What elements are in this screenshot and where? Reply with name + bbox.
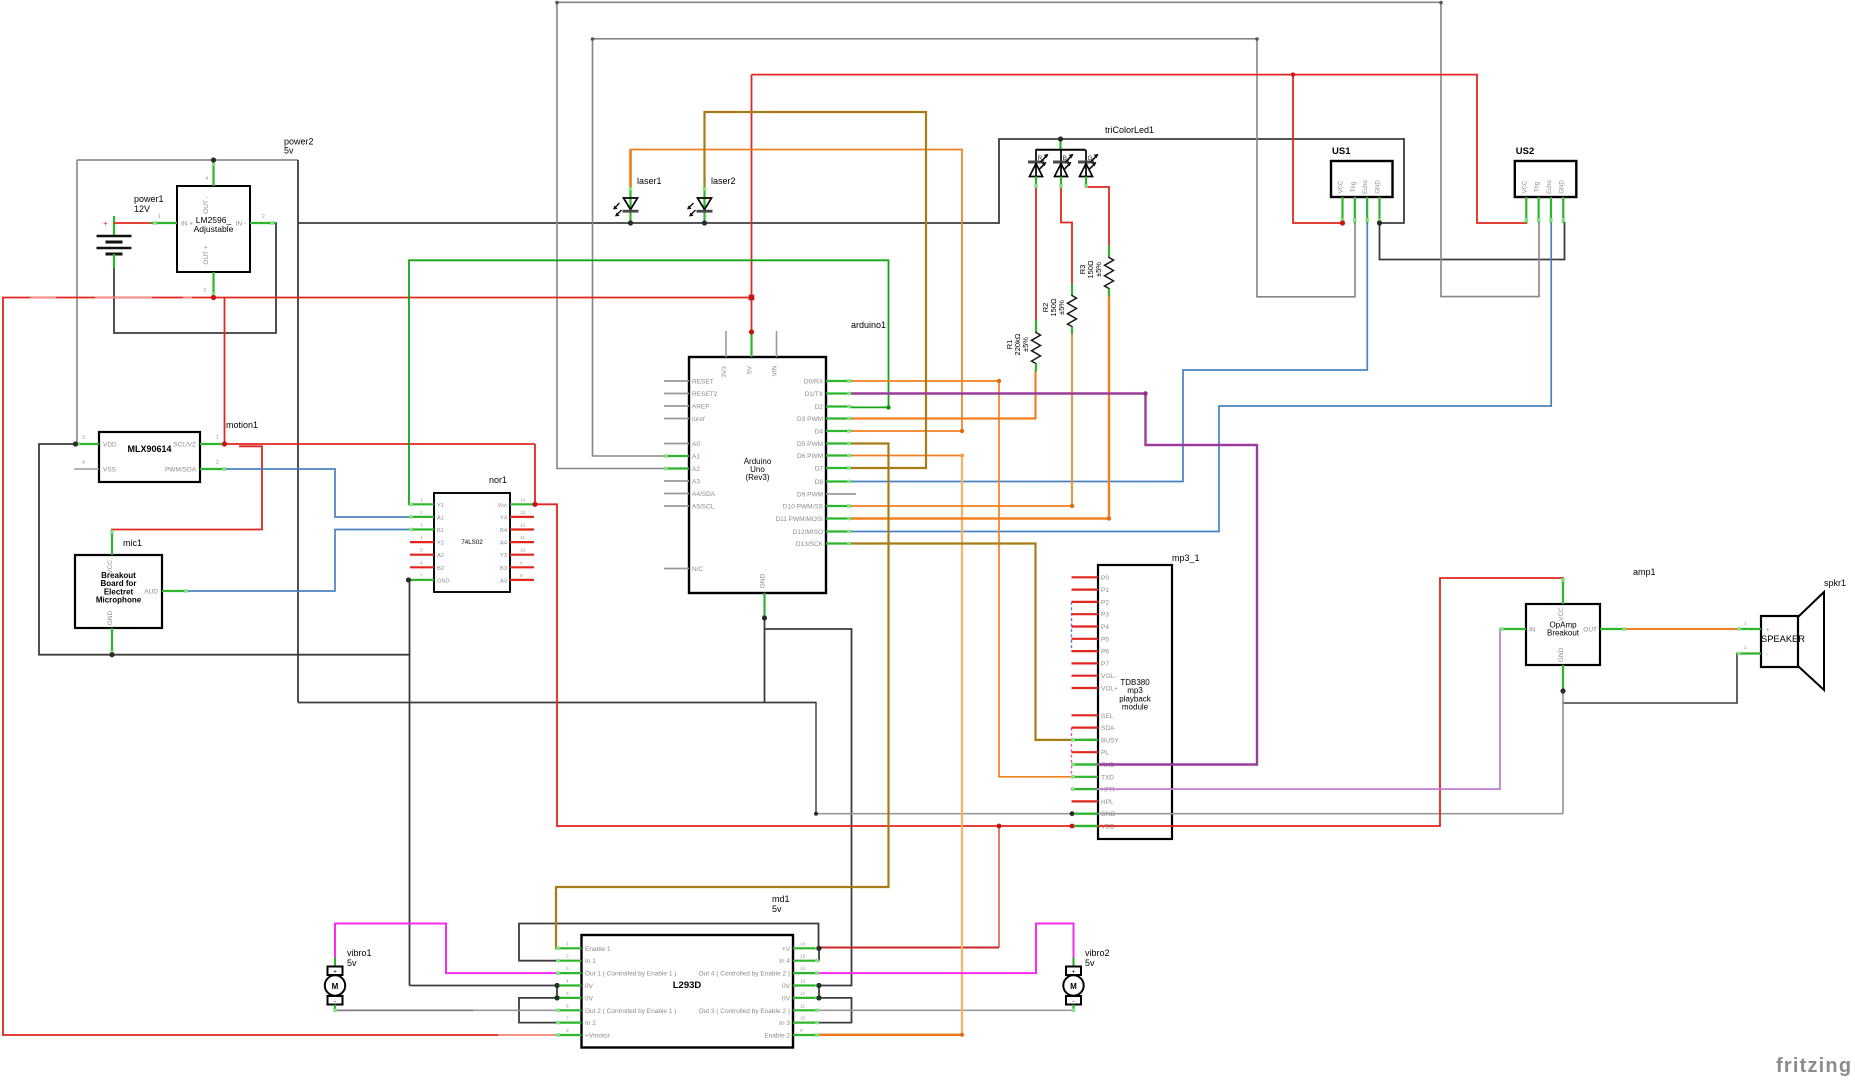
svg-text:GND: GND xyxy=(760,573,767,588)
junction A2 corner xyxy=(555,1,559,5)
svg-text:HPL: HPL xyxy=(1101,799,1114,806)
wire 12V rail overlay xyxy=(95,297,152,299)
svg-text:3: 3 xyxy=(420,523,423,529)
svg-text:1: 1 xyxy=(420,497,423,503)
svg-text:4: 4 xyxy=(420,535,423,541)
ratsnest mp3 SDA-TXD xyxy=(1071,728,1073,777)
svg-text:3: 3 xyxy=(566,966,569,972)
svg-text:OUT -: OUT - xyxy=(203,196,210,214)
wire arduino GND branch xyxy=(765,629,852,986)
junction laser2 cathode xyxy=(702,220,707,225)
svg-text:8: 8 xyxy=(566,1028,569,1034)
wire amp GND to speaker minus xyxy=(1563,654,1737,704)
svg-text:B3: B3 xyxy=(500,566,507,572)
svg-text:arduino1: arduino1 xyxy=(851,320,886,330)
wire D0 to mp3 TXD xyxy=(852,381,1099,777)
svg-text:HPR: HPR xyxy=(1101,787,1115,794)
nor1 left pins xyxy=(409,503,434,505)
wire D6 horizontal xyxy=(852,455,963,457)
svg-text:VSS: VSS xyxy=(103,467,117,474)
svg-text:7: 7 xyxy=(566,1016,569,1022)
svg-text:74LS02: 74LS02 xyxy=(461,539,483,546)
svg-text:9: 9 xyxy=(520,560,523,566)
svg-text:B2: B2 xyxy=(437,566,444,572)
wire laser1 anode overlay xyxy=(629,150,632,187)
svg-text:fritzing: fritzing xyxy=(1776,1055,1852,1077)
wire nor GND to L293D 0V4 xyxy=(410,985,558,987)
svg-text:1: 1 xyxy=(216,435,219,441)
battery power1 plus stub xyxy=(113,216,115,236)
svg-text:2: 2 xyxy=(216,460,219,466)
regulator U-power2 box xyxy=(177,186,250,272)
svg-text:5v: 5v xyxy=(284,146,294,156)
svg-text:GND: GND xyxy=(1101,811,1116,818)
svg-text:BUSY: BUSY xyxy=(1101,737,1119,744)
svg-text:0V: 0V xyxy=(782,983,791,990)
svg-text:10: 10 xyxy=(520,548,526,554)
svg-text:D12/MISO: D12/MISO xyxy=(793,529,823,536)
junction D1 purple xyxy=(1143,391,1147,395)
svg-text:A2: A2 xyxy=(437,553,444,559)
junction L293D 0V13 xyxy=(816,983,821,988)
svg-text:power1: power1 xyxy=(134,194,164,204)
svg-text:Trig: Trig xyxy=(1535,182,1541,192)
wire Out3 to vibro2 minus xyxy=(819,1009,1074,1011)
svg-text:1: 1 xyxy=(1744,621,1747,627)
svg-text:VIN: VIN xyxy=(772,365,779,376)
wire D6 to Enable2 drop xyxy=(961,456,963,1035)
junction VDD mp3 xyxy=(1070,824,1075,829)
svg-text:VDD: VDD xyxy=(1101,824,1115,831)
junction VDD L293D xyxy=(997,824,1002,829)
wire nor GND down xyxy=(409,580,411,986)
wire US1 VCC drop xyxy=(1293,75,1343,223)
battery power1 plate1 xyxy=(97,235,132,238)
svg-text:Out 3 ( Controlled by Enable 2: Out 3 ( Controlled by Enable 2 ) xyxy=(699,1008,790,1015)
svg-text:TXD: TXD xyxy=(1101,774,1114,781)
svg-text:9: 9 xyxy=(800,1028,803,1034)
svg-text:Out 2 ( Controlled by Enable 1: Out 2 ( Controlled by Enable 1 ) xyxy=(585,1008,676,1015)
svg-text:Out 1 ( Controlled by Enable 1: Out 1 ( Controlled by Enable 1 ) xyxy=(585,971,676,978)
wire HPR over mp3 box xyxy=(1097,788,1174,790)
svg-text:SPEAKER: SPEAKER xyxy=(1761,634,1805,644)
svg-text:Y4: Y4 xyxy=(500,515,507,521)
svg-text:4: 4 xyxy=(82,460,85,466)
svg-text:mp3_1: mp3_1 xyxy=(1172,553,1200,563)
nor1 box xyxy=(434,493,510,592)
svg-text:Y2: Y2 xyxy=(437,541,444,547)
amp1 pin VCC xyxy=(1562,578,1564,604)
svg-text:VOL-: VOL- xyxy=(1101,673,1116,680)
resistor R1 xyxy=(1035,321,1037,333)
svg-text:6: 6 xyxy=(420,560,423,566)
MLX90614 pin SDA stub xyxy=(200,468,225,470)
wire L293D In3 tie xyxy=(819,998,852,1023)
LM2596 pin IN- stub xyxy=(250,222,276,224)
svg-text:D5 PWM: D5 PWM xyxy=(797,441,823,448)
svg-text:7: 7 xyxy=(420,573,423,579)
svg-text:-: - xyxy=(334,998,336,1005)
junction motion VDD xyxy=(73,441,78,446)
md1 right pins xyxy=(793,947,819,949)
arduino1 pin VIN xyxy=(776,331,778,357)
wire LED R leg xyxy=(1035,188,1037,321)
wire D4 to laser1 xyxy=(631,150,963,432)
wire ground rail xyxy=(298,702,816,704)
svg-text:GND: GND xyxy=(1558,647,1565,662)
svg-text:VCC: VCC xyxy=(1522,180,1528,193)
amp1 pin OUT xyxy=(1600,628,1626,630)
MLX90614 pin VDD stub xyxy=(76,443,100,445)
junction L293D 0V4 xyxy=(554,983,559,988)
LM2596 pin IN+ wire xyxy=(114,222,151,224)
svg-text:vibro1: vibro1 xyxy=(347,948,372,958)
wire 12V out rail xyxy=(3,297,752,299)
wire nor Vcc riser xyxy=(534,444,536,504)
wire arduino GND down xyxy=(764,618,766,703)
svg-text:A0: A0 xyxy=(692,441,700,448)
wire 5V riser xyxy=(751,75,753,332)
amp1 box xyxy=(1526,604,1600,665)
wire 12V rail overlay3 xyxy=(183,297,192,299)
svg-text:A3: A3 xyxy=(692,479,700,486)
svg-text:D0/RX: D0/RX xyxy=(804,379,824,386)
svg-text:laser2: laser2 xyxy=(711,176,736,186)
battery power1 minus stub xyxy=(113,254,115,268)
svg-text:Y3: Y3 xyxy=(500,553,507,559)
svg-text:md1: md1 xyxy=(772,894,790,904)
svg-text:GND: GND xyxy=(107,610,114,625)
svg-text:SEL: SEL xyxy=(1101,713,1114,720)
wire L293D In2 tie xyxy=(519,998,557,1023)
svg-text:N/C: N/C xyxy=(692,566,704,573)
wire battery minus to IN- xyxy=(114,223,276,333)
wire US2 VCC drop xyxy=(1477,75,1527,223)
junction mp3 GND xyxy=(1070,811,1075,816)
wire L293D 0V tie right xyxy=(818,986,820,998)
junction arduino 5V xyxy=(749,329,754,334)
svg-text:1: 1 xyxy=(566,941,569,947)
svg-text:P7: P7 xyxy=(1101,661,1109,668)
wire VDD rail over mp3 box xyxy=(1097,825,1174,827)
wire MLX SCL drop xyxy=(224,298,226,445)
junction 12V rail xyxy=(211,295,216,300)
svg-text:laser1: laser1 xyxy=(637,176,662,186)
svg-text:B4: B4 xyxy=(500,528,507,534)
svg-text:13: 13 xyxy=(520,510,526,516)
svg-text:14: 14 xyxy=(800,966,806,972)
ultrasonic US1 xyxy=(1331,161,1393,197)
junction L293D 0V5 xyxy=(554,995,559,1000)
svg-text:5: 5 xyxy=(420,548,423,554)
junction 5V rail tap xyxy=(749,295,755,301)
svg-text:VOL+: VOL+ xyxy=(1101,686,1118,693)
svg-text:+Vmotor: +Vmotor xyxy=(585,1033,611,1040)
svg-text:11: 11 xyxy=(520,535,525,541)
svg-text:IN -: IN - xyxy=(236,221,246,228)
svg-text:5: 5 xyxy=(566,991,569,997)
svg-text:D4: D4 xyxy=(815,429,824,436)
svg-text:6: 6 xyxy=(566,1003,569,1009)
wire D1 to mp3 RXD xyxy=(852,394,1258,765)
motor vibro1 xyxy=(334,958,336,967)
svg-text:A5/SCL: A5/SCL xyxy=(692,504,715,511)
svg-text:(Rev3): (Rev3) xyxy=(745,473,769,482)
svg-text:nor1: nor1 xyxy=(489,475,507,485)
svg-text:B1: B1 xyxy=(437,528,444,534)
wire SCL to nor Vcc xyxy=(225,443,536,445)
junction gnd rail corner xyxy=(814,812,818,816)
wire vibro1 minus to Out2 xyxy=(335,1009,556,1011)
svg-text:5V: 5V xyxy=(747,365,754,374)
wire 5V top rail xyxy=(752,74,1478,76)
junction US1 VCC xyxy=(1340,220,1345,225)
md1 left pins xyxy=(556,947,582,949)
wire D10 to R2 xyxy=(852,334,1073,506)
wire left red drop xyxy=(3,298,556,1036)
mp3_1 pins xyxy=(1072,576,1099,578)
svg-text:P4: P4 xyxy=(1101,624,1109,631)
svg-text:3V3: 3V3 xyxy=(721,366,728,378)
svg-text:0V: 0V xyxy=(585,995,594,1002)
svg-text:A3: A3 xyxy=(500,578,507,584)
wire mp3 GND rail xyxy=(816,813,1563,815)
svg-text:12: 12 xyxy=(520,523,526,529)
battery power1 plate4 xyxy=(106,253,123,256)
junction D0 corner xyxy=(997,379,1001,383)
mp3_1 box xyxy=(1098,565,1172,839)
MLX90614 pin VSS stub xyxy=(74,468,99,470)
spkr1 pin plus xyxy=(1737,628,1761,630)
svg-text:In 1: In 1 xyxy=(585,958,596,965)
wire LED G leg xyxy=(1086,187,1109,246)
junction US1 GND xyxy=(1377,220,1382,225)
svg-text:P2: P2 xyxy=(1101,599,1109,606)
svg-text:motion1: motion1 xyxy=(226,420,258,430)
svg-text:D8: D8 xyxy=(815,479,824,486)
wire L293D In4 tie xyxy=(818,948,820,960)
svg-text:+: + xyxy=(103,219,108,228)
svg-text:5v: 5v xyxy=(347,958,357,968)
wire Out1 to vibro1 plus xyxy=(335,924,556,974)
svg-text:2: 2 xyxy=(566,954,569,960)
sensor motion1 box xyxy=(99,432,200,482)
svg-text:2: 2 xyxy=(262,214,265,220)
triColorLed1 LEDs xyxy=(1036,149,1086,151)
amp1 pin GND xyxy=(1562,665,1564,691)
svg-text:M: M xyxy=(1070,982,1077,991)
junction mic GND xyxy=(109,652,114,657)
svg-text:4: 4 xyxy=(566,979,569,985)
junction A1 corner xyxy=(591,37,595,41)
svg-text:GND: GND xyxy=(1375,180,1381,194)
svg-text:A4: A4 xyxy=(500,541,507,547)
svg-text:Trig: Trig xyxy=(1351,182,1357,192)
wire amp VCC riser xyxy=(1440,578,1563,826)
svg-text:US2: US2 xyxy=(1516,146,1534,157)
svg-text:±5%: ±5% xyxy=(1094,262,1103,277)
arduino1 left pins xyxy=(664,380,689,382)
junction D6 corner xyxy=(960,454,964,458)
svg-text:VCC: VCC xyxy=(1339,180,1345,193)
svg-text:D10 PWM/SS: D10 PWM/SS xyxy=(783,504,824,511)
junction laser1 cathode xyxy=(628,220,633,225)
svg-text:VCC: VCC xyxy=(1558,607,1565,621)
wire L293D +V feed xyxy=(819,947,999,949)
junction power2/OUT- xyxy=(211,157,216,162)
junction nor Vcc xyxy=(532,502,537,507)
wire amp OUT to speaker xyxy=(1626,628,1737,630)
mp3 GND stub overlay xyxy=(1072,813,1099,815)
svg-text:8: 8 xyxy=(520,573,523,579)
mic1 box xyxy=(75,555,162,628)
LM2596 pin OUT+ stub xyxy=(212,272,214,298)
wire nor Vcc to VDD rail xyxy=(535,504,557,826)
wire power2 vertical xyxy=(297,160,299,703)
wire Out4 to vibro2 plus xyxy=(819,924,1074,974)
LM2596 pin IN+ stub xyxy=(151,222,177,224)
wire rail riser xyxy=(999,139,1404,223)
wire A1 to US1 Trig xyxy=(593,39,1356,456)
svg-text:D13/SCK: D13/SCK xyxy=(796,541,824,548)
wire A2 to US2 Trig xyxy=(557,2,1539,468)
svg-text:D9 PWM: D9 PWM xyxy=(797,492,823,499)
wire nor Y1 to D2 xyxy=(409,260,889,504)
motor vibro2 xyxy=(1072,958,1074,967)
svg-text:module: module xyxy=(1122,703,1149,712)
svg-text:Microphone: Microphone xyxy=(96,596,142,605)
svg-text:10: 10 xyxy=(800,1016,806,1022)
svg-text:0V: 0V xyxy=(782,995,791,1002)
wire LED B leg xyxy=(1061,188,1072,284)
svg-text:VCC: VCC xyxy=(107,560,114,574)
wire L293D +V riser xyxy=(998,826,1000,948)
laser2 LED xyxy=(703,187,705,223)
svg-text:Enable 2: Enable 2 xyxy=(764,1033,790,1040)
svg-text:RESET: RESET xyxy=(692,379,714,386)
junction D2 green xyxy=(886,405,890,409)
wire +Vmotor overlay xyxy=(498,1034,556,1036)
svg-text:D7: D7 xyxy=(815,466,824,473)
svg-text:Out 4 ( Controlled by Enable 2: Out 4 ( Controlled by Enable 2 ) xyxy=(699,971,790,978)
wire vibro1 minus overlay xyxy=(335,1009,473,1011)
wire D5 to Enable1 xyxy=(556,444,889,949)
wire mic VCC branch xyxy=(112,446,262,542)
svg-text:mic1: mic1 xyxy=(123,538,142,548)
spkr1 box xyxy=(1761,616,1798,667)
MLX90614 pin SCL stub xyxy=(200,443,225,445)
md1 box xyxy=(582,935,794,1048)
svg-text:IN: IN xyxy=(1529,627,1536,634)
arduino1 pin GND bottom xyxy=(763,593,765,618)
laser1 LED xyxy=(629,187,631,223)
ratsnest mp3 P2-P6 xyxy=(1071,602,1073,651)
svg-text:In 3: In 3 xyxy=(779,1020,790,1027)
junction MLX SCL xyxy=(222,441,227,446)
wire D11 to R3 xyxy=(852,296,1110,519)
wire L293D 0V tie left xyxy=(556,986,558,998)
svg-text:In 2: In 2 xyxy=(585,1020,596,1027)
svg-text:D1/TX: D1/TX xyxy=(805,391,824,398)
junction amp GND xyxy=(1560,688,1565,693)
wire VDD rail xyxy=(557,825,1440,827)
mic1 pin GND stub xyxy=(111,628,113,655)
wire D13 to mp3 BUSY xyxy=(852,544,1099,740)
svg-text:2: 2 xyxy=(1744,645,1747,651)
junction D11 corner xyxy=(1107,516,1111,520)
svg-text:OUT: OUT xyxy=(1583,627,1597,634)
wire Enable2 feed xyxy=(819,1034,962,1036)
svg-text:5v: 5v xyxy=(772,904,782,914)
svg-text:P6: P6 xyxy=(1101,649,1109,656)
junction A2 corner2 xyxy=(1439,1,1443,5)
svg-text:L293D: L293D xyxy=(673,980,702,991)
amp1 pin IN xyxy=(1500,628,1526,630)
wire GND rail over mp3 box xyxy=(1097,813,1174,815)
svg-text:Y1: Y1 xyxy=(437,503,444,509)
svg-text:VDD: VDD xyxy=(103,442,117,449)
wire L293D In1 tie xyxy=(519,924,819,961)
svg-text:D11 PWM/MOSI: D11 PWM/MOSI xyxy=(775,516,823,523)
junction A1 corner2 xyxy=(1255,37,1259,41)
svg-text:D6 PWM: D6 PWM xyxy=(797,453,823,460)
svg-text:IN +: IN + xyxy=(181,221,193,228)
mp3 RXD stub overlay xyxy=(1072,763,1099,765)
svg-text:D3 PWM: D3 PWM xyxy=(797,416,823,423)
junction nor GND xyxy=(406,577,411,582)
svg-text:M: M xyxy=(332,982,339,991)
wire mic AUD to nor B1 xyxy=(188,530,409,592)
wire gnd rail drop xyxy=(815,703,817,814)
wire mp3 HPR to amp IN xyxy=(1072,629,1527,789)
svg-text:D2: D2 xyxy=(815,404,824,411)
svg-text:-: - xyxy=(1766,652,1768,658)
svg-text:A1: A1 xyxy=(692,454,700,461)
svg-text:SCL/VZ: SCL/VZ xyxy=(173,442,196,449)
junction US1 VCC rail xyxy=(1291,72,1295,76)
LM2596 pin OUT- stub xyxy=(212,160,214,186)
battery power1 plate3 xyxy=(97,247,132,250)
wire amp GND drop xyxy=(1562,691,1564,814)
svg-text:PWM/SDA: PWM/SDA xyxy=(165,467,197,474)
junction D10 corner xyxy=(1070,504,1074,508)
arduino1 pin 3V3 xyxy=(725,331,727,357)
wire D1-RXD over mp3 box xyxy=(1097,763,1174,765)
junction L293D 0V12 xyxy=(816,995,821,1000)
svg-text:amp1: amp1 xyxy=(1633,567,1656,577)
wire D8 to US1 Echo xyxy=(852,223,1368,482)
svg-text:5v: 5v xyxy=(1085,958,1095,968)
arduino1 box xyxy=(689,357,826,593)
svg-text:±5%: ±5% xyxy=(1057,300,1066,315)
svg-text:P0: P0 xyxy=(1101,575,1109,582)
junction Enable2 corner xyxy=(960,1033,964,1037)
svg-text:In 4: In 4 xyxy=(779,958,790,965)
junction triColor common xyxy=(1058,136,1063,141)
svg-text:4: 4 xyxy=(205,176,208,182)
svg-text:AREF: AREF xyxy=(692,404,709,411)
svg-text:2: 2 xyxy=(420,510,423,516)
svg-text:15: 15 xyxy=(800,954,806,960)
wire power2 left vertical xyxy=(76,160,78,444)
svg-text:Echo: Echo xyxy=(1547,180,1553,194)
junction D4 corner xyxy=(960,429,964,433)
svg-text:Vcc: Vcc xyxy=(498,503,508,509)
wire US1 GND drop xyxy=(1380,139,1405,223)
wire US1-US2 GND link xyxy=(1380,223,1565,260)
svg-text:A1: A1 xyxy=(437,515,444,521)
svg-text:12V: 12V xyxy=(134,204,150,214)
